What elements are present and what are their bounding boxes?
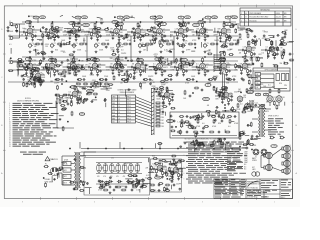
resistor R34 — [79, 43, 84, 45]
wire d2a21 — [170, 34, 172, 37]
node b1a44 — [107, 27, 108, 28]
wire chain2 — [145, 64, 148, 66]
tube triode V9 — [200, 27, 206, 34]
svg-text:100K: 100K — [186, 17, 190, 19]
wire chain — [59, 29, 62, 31]
wire — [90, 31, 93, 33]
wire cathode — [37, 78, 39, 81]
svg-text:2W: 2W — [163, 32, 166, 34]
resistor R171 — [100, 186, 105, 188]
callout 0.1 — [205, 84, 211, 87]
resistor R364 — [55, 58, 57, 63]
resistor R329 — [170, 173, 175, 175]
junction heater — [177, 148, 178, 149]
wire — [273, 74, 275, 89]
capacitor C222 — [219, 139, 222, 142]
wire chain2 — [210, 64, 213, 66]
wire hbx9 — [154, 143, 156, 148]
capacitor C56 — [152, 66, 155, 69]
wire ac22 — [61, 161, 66, 163]
wire chain — [37, 29, 40, 31]
wire — [133, 66, 136, 68]
wire interband — [42, 36, 44, 62]
svg-text:0.0: 0.0 — [202, 123, 205, 125]
wire drop — [119, 142, 121, 149]
capacitor C171 — [81, 66, 84, 69]
resistor R362 — [40, 59, 42, 64]
wire stage input — [106, 31, 110, 33]
resistor R319 — [132, 175, 137, 177]
wire stage input — [19, 66, 23, 68]
resistor R33 — [57, 43, 62, 45]
border frame outer — [4, 6, 292, 199]
svg-text:.68: .68 — [207, 105, 210, 107]
resistor R48 — [248, 40, 250, 45]
svg-text:6L6: 6L6 — [244, 169, 246, 171]
wire stage input — [64, 94, 68, 96]
svg-text:CN8: CN8 — [161, 123, 164, 125]
wire cathode — [137, 33, 139, 36]
resistor R206 — [54, 27, 59, 29]
filter capacitor C115 — [116, 164, 121, 173]
interconnect table TB1 — [112, 95, 136, 123]
capacitor C81 — [42, 80, 45, 83]
svg-text:4: 4 — [166, 4, 167, 6]
capacitor C77 — [22, 78, 25, 81]
callout 8 OHM — [271, 145, 277, 148]
wire bc24 — [161, 163, 163, 167]
svg-text:.68: .68 — [238, 53, 241, 55]
wire tr16 — [240, 28, 246, 30]
resistor R74 — [161, 69, 163, 74]
svg-text:PIN 7: PIN 7 — [127, 115, 131, 117]
capacitor C31 — [283, 36, 286, 39]
wire harness fanout 6 — [136, 112, 152, 117]
wire chain — [210, 29, 213, 31]
resistor R341 — [69, 181, 74, 183]
capacitor C10 — [121, 35, 124, 38]
wire run — [8, 69, 238, 71]
tube triode V12 — [269, 45, 275, 52]
capacitor C39 — [253, 35, 256, 38]
capacitor C232 — [142, 183, 145, 186]
svg-text:100PF: 100PF — [176, 183, 182, 185]
component SW2 — [63, 174, 71, 178]
potentiometer P2 — [50, 43, 54, 49]
resistor R137 — [166, 86, 168, 91]
resistor R180 — [165, 184, 170, 186]
capacitor C127 — [173, 184, 176, 187]
wire chain2 — [188, 64, 191, 66]
tube triode V2 — [49, 27, 55, 34]
jack J1 INPUT 1 — [9, 23, 14, 26]
junction heater — [159, 148, 160, 149]
node ps8 — [138, 182, 139, 183]
resistor R246 — [58, 73, 63, 75]
wire cathode — [159, 68, 161, 71]
resistor R135 — [104, 83, 109, 85]
wire cathode — [202, 33, 204, 36]
svg-text:820: 820 — [152, 156, 155, 158]
wire b1a56 — [237, 40, 239, 45]
capacitor C123 — [131, 189, 134, 192]
capacitor C47 — [56, 70, 59, 73]
wire sw2 — [210, 114, 216, 116]
wire b1a14 — [237, 23, 239, 29]
wire — [197, 31, 200, 33]
resistor R49 — [251, 52, 253, 57]
resistor R136 — [163, 96, 165, 101]
speaker SPK1 — [264, 152, 272, 159]
callout 0.0 — [33, 67, 39, 70]
resistor R295 — [204, 126, 209, 128]
resistor R277 — [83, 98, 88, 100]
wire hbx4 — [225, 144, 227, 150]
resistor R222 — [71, 69, 76, 71]
wire b1a67 — [225, 40, 227, 45]
wire cr2b11 — [223, 88, 227, 90]
wire b1b25 — [35, 49, 37, 56]
speaker cluster small — [252, 172, 260, 176]
wire p3r2 — [259, 57, 263, 59]
zone tick top — [255, 5, 257, 8]
wire stage output — [229, 93, 233, 95]
capacitor C245 — [137, 36, 140, 39]
capacitor C82 — [55, 94, 58, 97]
capacitor C119 — [109, 186, 112, 189]
wire stage output — [227, 64, 231, 66]
svg-text:47K: 47K — [81, 114, 84, 116]
capacitor C59 — [185, 70, 188, 73]
wire stage input — [84, 66, 88, 68]
wire b1a36 — [95, 26, 97, 32]
node cr2b3 — [213, 86, 214, 87]
capacitor C159 — [176, 43, 179, 46]
wire pc12 — [181, 169, 183, 174]
capacitor C235 — [171, 180, 174, 183]
capacitor C97 — [189, 95, 192, 98]
capacitor C40 — [242, 49, 245, 52]
capacitor C19 — [217, 31, 220, 34]
wire stage output — [55, 29, 59, 31]
callout 1M — [225, 16, 231, 19]
svg-text:WHT: WHT — [112, 115, 115, 117]
wire d2ps2 — [105, 181, 107, 187]
ground — [161, 39, 164, 42]
capacitor C104 — [218, 131, 221, 134]
resistor R192 — [115, 25, 120, 27]
component SW1 — [63, 168, 71, 172]
wire d2a3 — [196, 30, 198, 36]
resistor R357 — [116, 64, 118, 69]
filter capacitor C114 — [109, 164, 114, 173]
svg-text:SW1: SW1 — [64, 170, 67, 172]
wire cathode — [159, 33, 161, 36]
wire harness fanout 2 — [136, 100, 152, 106]
service note line 15 — [188, 168, 198, 171]
capacitor C202 — [251, 109, 254, 112]
zone tick bottom — [111, 197, 113, 200]
resistor R173 — [132, 186, 137, 188]
callout 12AX7 — [70, 85, 76, 88]
wire — [57, 127, 74, 129]
capacitor C76 — [243, 109, 246, 112]
wire cathode — [202, 68, 204, 71]
svg-text:J7: J7 — [118, 115, 120, 117]
capacitor C4 — [56, 35, 59, 38]
svg-text:8 OHM: 8 OHM — [272, 146, 278, 148]
resistor R87 — [33, 79, 38, 81]
resistor R72 — [155, 67, 157, 72]
wire AC hot — [59, 169, 62, 171]
resistor R176 — [156, 169, 158, 174]
component F1 4A — [63, 162, 71, 166]
svg-text:CN9: CN9 — [161, 126, 164, 128]
resistor R152 — [181, 119, 183, 124]
svg-text:SPKRS: SPKRS — [252, 160, 257, 162]
svg-text:HV: HV — [280, 48, 282, 50]
svg-text:100PF: 100PF — [125, 163, 131, 165]
resistor R38 — [166, 43, 171, 45]
relay K1 — [255, 73, 261, 76]
svg-text:RED: RED — [112, 103, 115, 105]
junction B+ tap — [183, 21, 184, 22]
callout 250K — [193, 23, 200, 26]
capacitor C136 — [42, 26, 45, 29]
wire — [25, 66, 28, 68]
svg-text:0.0: 0.0 — [22, 28, 25, 30]
wire b1a51 — [64, 27, 71, 29]
ground — [31, 39, 34, 42]
capacitor C168 — [26, 64, 29, 67]
zone tick top — [75, 5, 77, 8]
capacitor C60 — [195, 66, 198, 69]
capacitor C126 — [158, 184, 161, 187]
capacitor C230 — [98, 180, 101, 183]
wire otl2 — [250, 139, 257, 141]
resistor R199 — [154, 39, 156, 44]
callout 47K — [281, 43, 286, 46]
capacitor C140 — [57, 29, 60, 32]
tube triode V17 — [114, 62, 120, 69]
filter capacitor C116 — [122, 164, 127, 173]
capacitor C95 — [230, 109, 233, 112]
wire hbx13 — [194, 147, 196, 153]
wire — [155, 168, 158, 170]
wire B+ drop — [223, 22, 225, 23]
wire stage input — [63, 66, 67, 68]
wire top stub — [97, 17, 103, 18]
junction B+ tap — [223, 21, 224, 22]
svg-text:V24: V24 — [243, 97, 246, 99]
wire chain2 — [167, 64, 170, 66]
resistor R102 — [34, 83, 36, 88]
resistor R388 — [229, 54, 234, 56]
wire B+ drop — [96, 22, 98, 23]
junction — [186, 79, 187, 80]
potentiometer P7 — [159, 43, 163, 49]
wire — [71, 169, 75, 171]
callout 100K — [185, 16, 191, 19]
callout 12AX7 — [117, 22, 124, 25]
svg-text:CN3: CN3 — [161, 108, 164, 110]
capacitor C65 — [249, 70, 252, 73]
capacitor C13 — [152, 31, 155, 34]
resistor R355 — [120, 66, 125, 68]
resistor R44 — [246, 28, 251, 30]
resistor R321 — [136, 183, 138, 188]
ground — [225, 39, 228, 42]
resistor R126 — [77, 97, 79, 102]
wire sw1 — [194, 115, 198, 117]
resistor R243 — [47, 68, 49, 73]
service note line 22 — [188, 182, 193, 185]
resistor R389 — [41, 53, 46, 55]
svg-text:UNLESS OTHERWISE SPECIFIED: UNLESS OTHERWISE SPECIFIED — [17, 100, 39, 102]
junction B+ tap — [52, 21, 53, 22]
svg-text:2: 2 — [238, 4, 239, 6]
svg-text:CN5: CN5 — [161, 114, 164, 116]
ground — [59, 118, 62, 121]
diode CR4 — [126, 180, 132, 183]
node top — [114, 17, 115, 18]
capacitor C1 — [23, 31, 26, 34]
resistor R318 — [138, 179, 140, 184]
wire cathode — [94, 68, 96, 71]
wire cathode — [116, 68, 118, 71]
callout 1M — [178, 16, 184, 19]
resistor R82 — [223, 57, 225, 62]
capacitor C175 — [39, 77, 42, 80]
resistor R278 — [93, 93, 98, 95]
resistor R261 — [273, 65, 278, 67]
wire — [61, 156, 63, 170]
resistor R129 — [71, 101, 73, 106]
resistor R231 — [235, 63, 237, 68]
node ac5 — [43, 177, 44, 178]
resistor R144 — [206, 110, 211, 112]
wire opto out — [261, 73, 275, 75]
wire cm14 — [105, 103, 107, 108]
capacitor C132 — [70, 30, 73, 33]
resistor R390 — [256, 57, 258, 62]
svg-text:2W: 2W — [85, 65, 88, 67]
ground — [53, 74, 56, 77]
wire stage output — [119, 64, 123, 66]
capacitor C224 — [217, 138, 220, 141]
resistor R56 — [32, 69, 34, 74]
svg-text:P9: P9 — [207, 43, 209, 45]
capacitor C23 — [85, 43, 88, 46]
ground — [162, 101, 165, 104]
svg-text:BRN: BRN — [112, 118, 115, 120]
resistor R235 — [153, 68, 158, 70]
capacitor C52 — [109, 66, 112, 69]
resistor R274 — [251, 84, 253, 89]
service note line 2 — [188, 143, 198, 146]
svg-text:250PF: 250PF — [144, 45, 150, 47]
capacitor C149 — [171, 41, 174, 44]
wire rr22 — [280, 51, 282, 57]
title block extra text rows — [247, 189, 251, 192]
resistor R105 — [19, 61, 24, 63]
resistor R198 — [237, 39, 239, 44]
diode CR2 — [108, 180, 114, 183]
fender logo script — [248, 181, 259, 187]
capacitor C255 — [253, 40, 256, 43]
resistor R299 — [180, 122, 185, 124]
wire b1a19 — [78, 29, 82, 31]
svg-text:820: 820 — [94, 88, 97, 90]
resistor R133 — [90, 83, 95, 85]
resistor R306 — [239, 135, 241, 140]
resistor R315 — [132, 175, 137, 177]
wire spk — [286, 166, 288, 169]
resistor R11 — [91, 32, 93, 37]
svg-text:B: B — [246, 17, 247, 19]
capacitor C155 — [60, 43, 63, 46]
wire b1a26 — [53, 28, 57, 30]
ground — [133, 72, 136, 75]
wire rr5 — [277, 65, 279, 71]
svg-text:J4: J4 — [118, 106, 120, 108]
wire bc26 — [166, 161, 171, 163]
node sw11 — [195, 119, 196, 120]
wire B+ drop — [52, 22, 54, 23]
svg-text:J8: J8 — [118, 118, 120, 120]
wire — [278, 103, 280, 106]
capacitor C29 — [216, 43, 219, 46]
wire sw7 — [231, 120, 234, 122]
capacitor C46 — [45, 66, 48, 69]
capacitor C21 — [41, 43, 44, 46]
capacitor C237 — [176, 168, 179, 171]
potentiometer P3 — [72, 43, 76, 49]
svg-text:0.0: 0.0 — [111, 158, 114, 160]
svg-text:0.1: 0.1 — [153, 64, 156, 66]
wire stage output — [141, 64, 145, 66]
tube triode V18 — [135, 62, 141, 69]
ground pot — [204, 51, 207, 54]
wire stage output — [248, 64, 252, 66]
resistor R116 — [60, 105, 65, 107]
service note line 12 — [188, 162, 193, 165]
svg-text:ECO-3105: ECO-3105 — [250, 20, 257, 22]
svg-text:J1: J1 — [9, 21, 11, 23]
junction — [33, 79, 34, 80]
wire — [62, 184, 75, 186]
resistor R331 — [168, 167, 170, 172]
transformer T3 output — [259, 104, 265, 137]
resistor R100 — [18, 65, 23, 67]
resistor pack RN3 — [286, 74, 289, 81]
wire b2a16 — [73, 65, 76, 67]
wire — [68, 66, 71, 68]
wire pc5 — [172, 172, 174, 178]
resistor R142 — [194, 87, 199, 89]
capacitor C8 — [99, 35, 102, 38]
resistor R73 — [159, 57, 161, 62]
node pc0 — [181, 177, 182, 178]
wire lm13 — [25, 83, 29, 85]
wire run — [8, 35, 238, 37]
svg-text:V1: V1 — [255, 156, 257, 158]
resistor R4 — [32, 34, 34, 39]
resistor R5 — [48, 32, 50, 37]
resistor R17 — [134, 32, 136, 37]
callout 12AX7 — [83, 23, 90, 26]
resistor R230 — [73, 65, 75, 70]
